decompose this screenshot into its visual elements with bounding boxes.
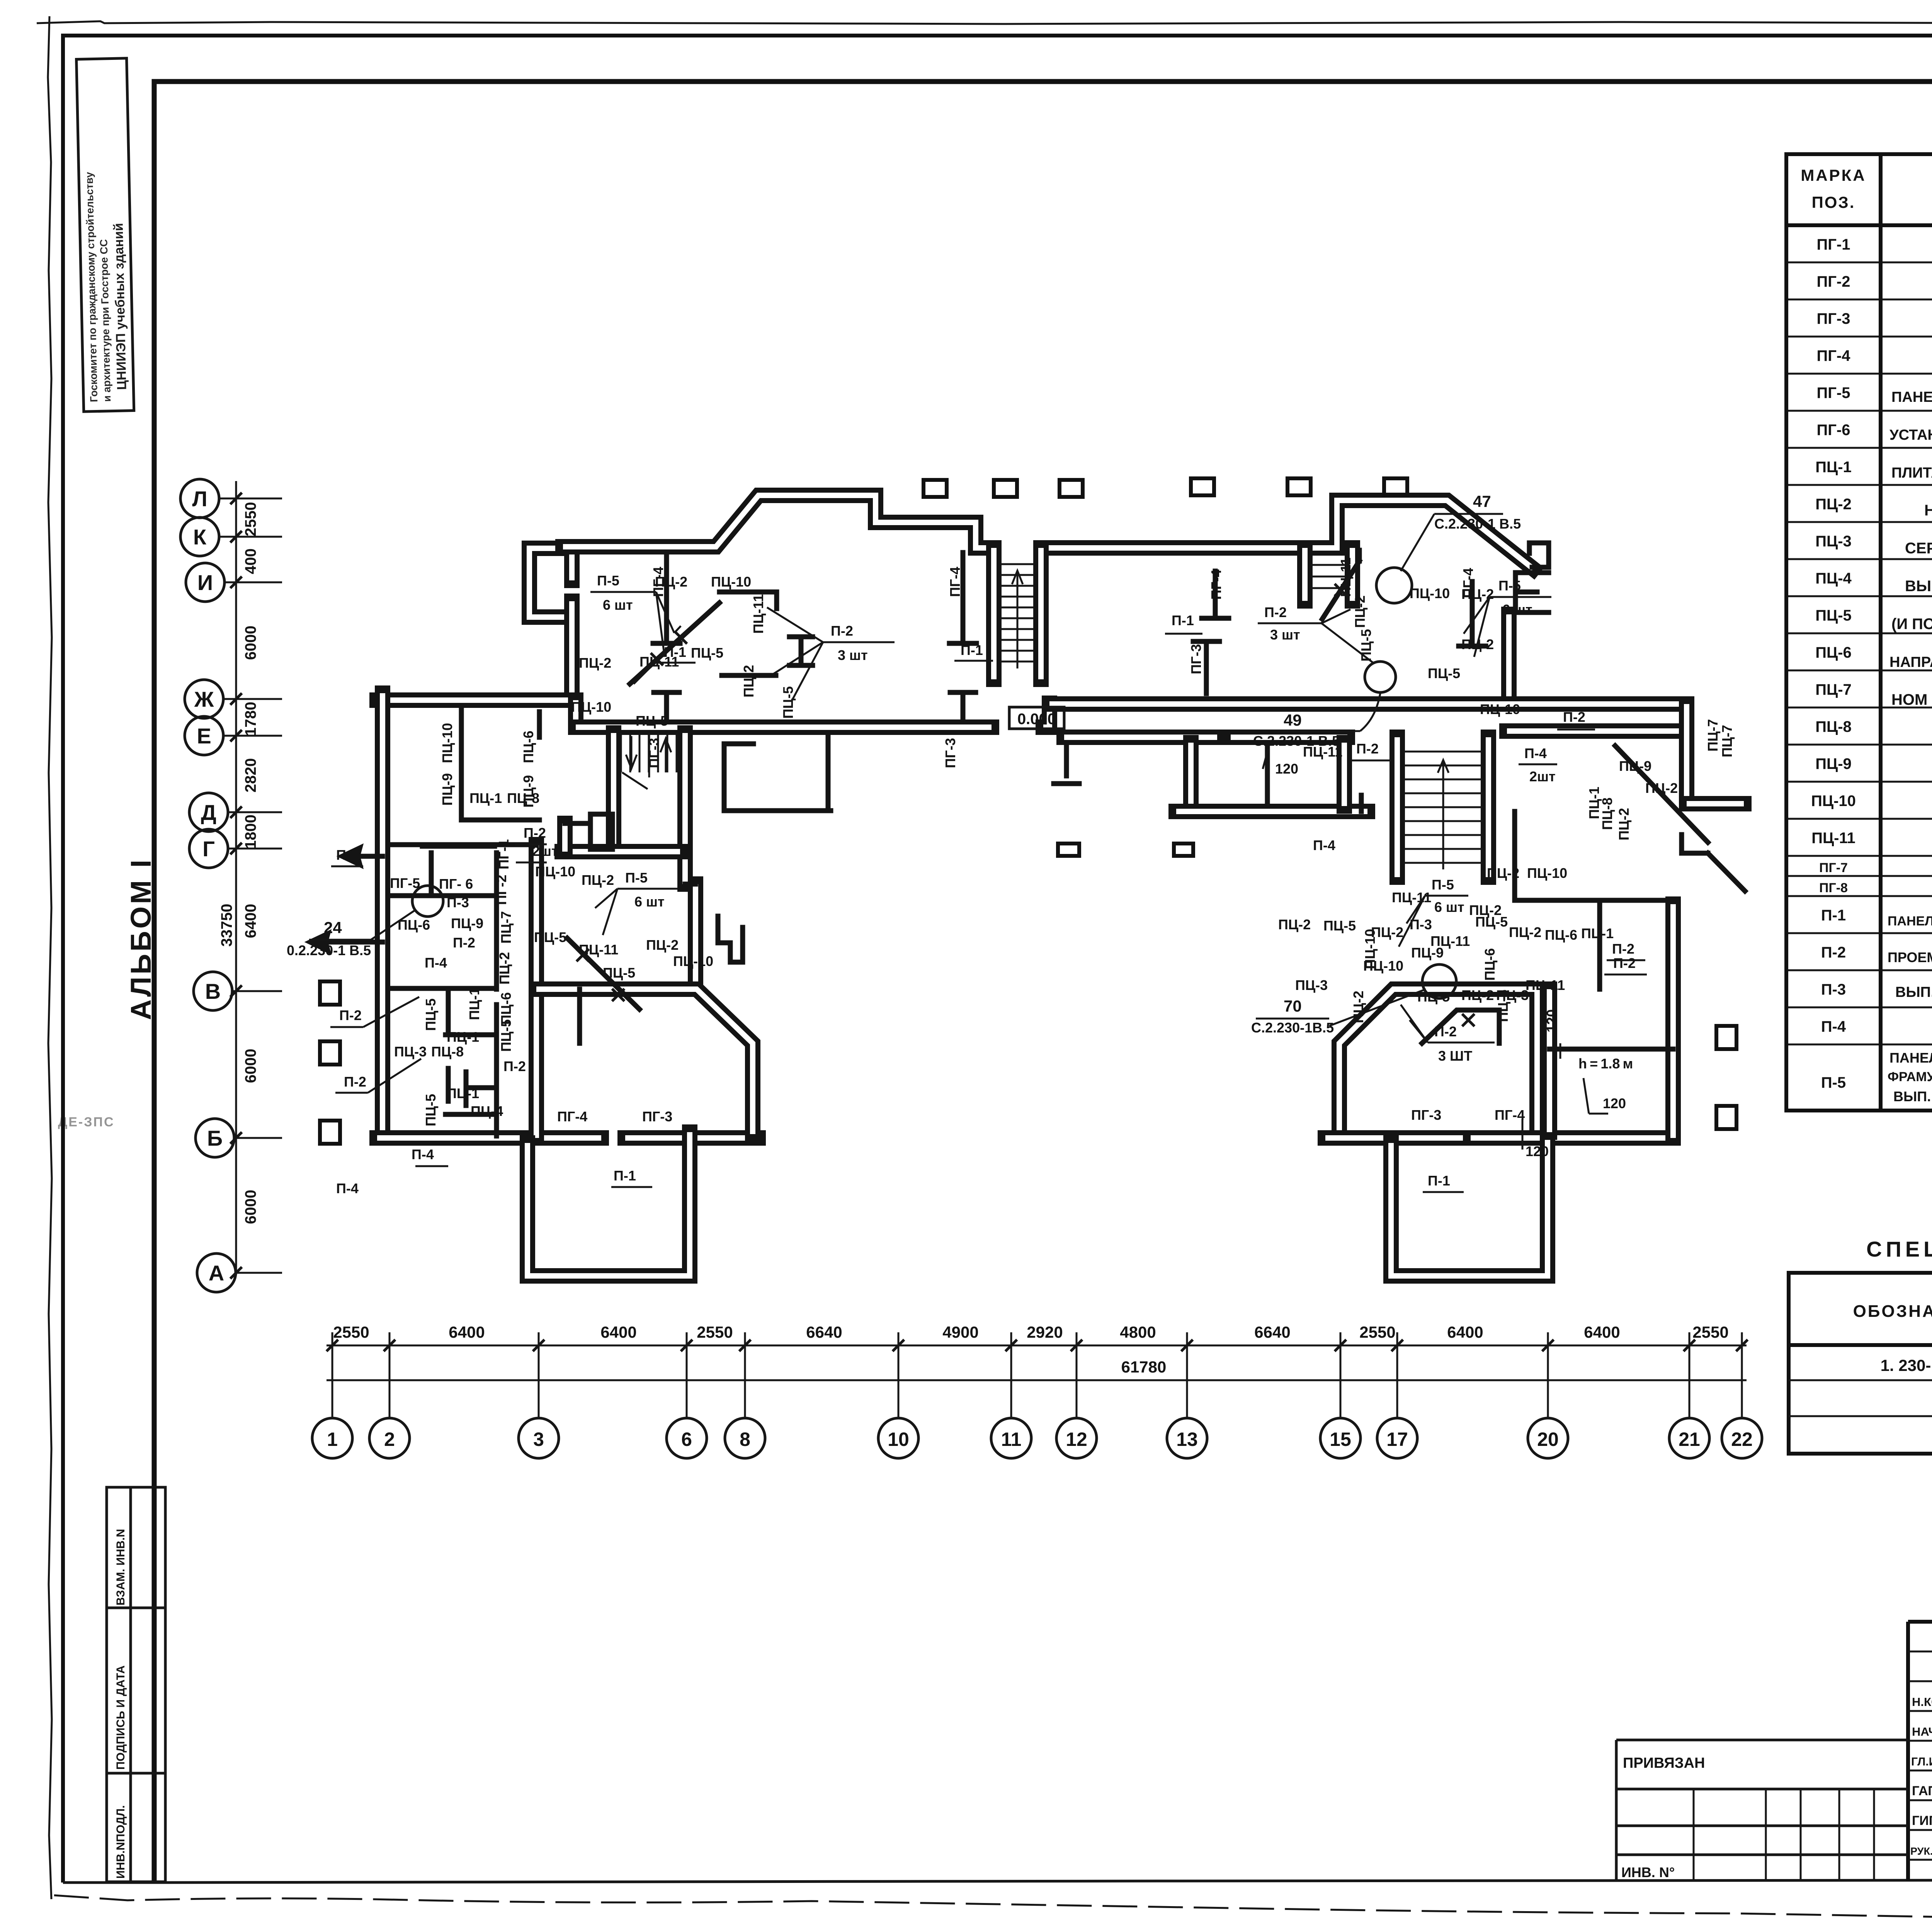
svg-text:Б: Б [207,1126,223,1150]
svg-text:СПЕЦИФИКАЦИЯ МОНТАЖНЫХ ЭЛЕМЕ: СПЕЦИФИКАЦИЯ МОНТАЖНЫХ ЭЛЕМЕНТОВ [1866,1237,1932,1261]
svg-text:ПГ-5: ПГ-5 [1817,384,1850,401]
axis circle Е [185,716,282,755]
svg-text:ПЦ-9: ПЦ-9 [451,915,483,931]
svg-text:РУК.ГР.АРХ: РУК.ГР.АРХ [1910,1845,1932,1857]
svg-text:Н.КОНТР.: Н.КОНТР. [1912,1695,1932,1709]
svg-text:ПЦ-2: ПЦ-2 [1352,595,1368,628]
paper edge left (wavy) [48,16,52,1899]
svg-text:ПЦ-5: ПЦ-5 [534,929,566,945]
SECTION:PLAN [287,478,1745,1276]
svg-text:8: 8 [740,1429,750,1450]
wall: vestibule right wall upper [571,554,572,580]
ramp symbol right [1682,835,1745,891]
stair left block [621,733,677,789]
svg-text:ПАНЕЛИ - ВСТАВКИ ПОД: ПАНЕЛИ - ВСТАВКИ ПОД [1889,1050,1932,1066]
svg-text:С.2.230-1В.5: С.2.230-1В.5 [1251,1020,1334,1036]
bottom-left stamp column [107,1487,165,1882]
wall: left stair wall left [613,733,614,852]
wall: right block bottom wall [1325,1138,1464,1138]
svg-text:ПАНЕЛИ-ВСТАВКИ НАД ДВЕРНЫМИ: ПАНЕЛИ-ВСТАВКИ НАД ДВЕРНЫМИ [1888,914,1932,929]
svg-text:ИНВ.NПОДЛ.: ИНВ.NПОДЛ. [114,1805,127,1879]
svg-text:ПЦ-5: ПЦ-5 [603,965,635,981]
wall: corridor main wall [576,727,992,728]
svg-text:ГАП: ГАП [1912,1784,1932,1798]
wall: left protrusion [527,1132,690,1276]
svg-text:20: 20 [1537,1429,1559,1450]
svg-text:1. 230-1 В. 5: 1. 230-1 В. 5 [1881,1356,1932,1374]
entrance stair center [1001,564,1034,668]
svg-text:(И ПОД РИГЕЛЯМИ, В: (И ПОД РИГЕЛЯМИ, В [1891,616,1932,633]
wall: corridor wall jog [575,700,576,727]
svg-text:ПЦ-1: ПЦ-1 [447,1085,479,1101]
svg-text:ПЦ-5: ПЦ-5 [1417,989,1450,1005]
svg-text:ПЦ-3: ПЦ-3 [394,1044,427,1060]
svg-text:22: 22 [1731,1429,1753,1450]
wall: left stair wall right [685,733,685,884]
axis circle Д [189,793,282,832]
svg-text:ПЦ-4: ПЦ-4 [1815,570,1852,587]
svg-text:6: 6 [681,1429,692,1450]
svg-text:Ж: Ж [194,687,214,711]
svg-text:120: 120 [1603,1095,1626,1111]
svg-text:ПГ-1: ПГ-1 [496,839,512,869]
svg-text:ПЦ-5: ПЦ-5 [1815,607,1852,624]
svg-text:ПЦ-5: ПЦ-5 [691,645,723,661]
wall: right block bottom wall b [1471,1138,1673,1138]
svg-text:6000: 6000 [242,1190,259,1224]
svg-text:П-2: П-2 [339,1007,362,1023]
svg-text:70: 70 [1284,997,1302,1015]
svg-text:6400: 6400 [1584,1323,1620,1341]
svg-text:ПЦ-3: ПЦ-3 [1295,977,1328,993]
svg-text:П-5: П-5 [1432,877,1454,893]
svg-text:П-3: П-3 [447,895,469,910]
wall: right corridor end stub [1687,803,1744,804]
svg-text:ПГ-3: ПГ-3 [1817,310,1850,327]
svg-text:6 шт: 6 шт [634,894,665,910]
svg-text:ПЦ-10: ПЦ-10 [711,574,751,590]
svg-text:ПЦ-6: ПЦ-6 [398,917,430,933]
wall: left stair bottom wall [562,851,680,852]
svg-text:П-2: П-2 [1356,741,1379,757]
svg-text:ПЦ-2: ПЦ-2 [582,872,614,888]
wall: vestibule left top bottom [529,548,568,617]
svg-text:ПЦ-2: ПЦ-2 [1371,924,1403,940]
joint ref 70 [1251,964,1456,1036]
label underlines and leader lines [330,563,1647,1192]
svg-text:ПЦ-2: ПЦ-2 [1815,496,1852,513]
section arrow axis Г [340,846,361,866]
svg-text:ПЦ-10: ПЦ-10 [1363,958,1403,974]
svg-text:НАЧ.АМ-1: НАЧ.АМ-1 [1912,1725,1932,1738]
svg-text:ГЛ.ИНЖ.М: ГЛ.ИНЖ.М [1911,1755,1932,1768]
svg-text:А: А [209,1261,224,1285]
svg-text:П-2: П-2 [453,935,475,951]
svg-text:П-5: П-5 [1821,1074,1846,1091]
svg-text:33750: 33750 [218,904,235,947]
svg-text:ПЦ-2: ПЦ-2 [1616,808,1632,840]
svg-text:12: 12 [1066,1429,1087,1450]
SECTION:TITLEBLOCK [1616,1622,1932,1912]
svg-text:ПГ-6: ПГ-6 [1817,422,1850,439]
joint ref 47 [1376,492,1521,603]
svg-text:ПЦ-1: ПЦ-1 [1581,925,1614,941]
svg-text:ПЦ-5: ПЦ-5 [1428,665,1460,681]
svg-text:24: 24 [324,918,342,937]
svg-text:120: 120 [1275,761,1298,777]
wall: left stair jog wall [565,823,565,852]
svg-text:ПЦ-7: ПЦ-7 [1719,725,1735,757]
svg-text:ПЦ-1: ПЦ-1 [469,790,502,806]
svg-text:ПГ-4: ПГ-4 [1208,570,1224,600]
svg-text:3: 3 [533,1429,544,1450]
axis circle 22 [1722,1332,1762,1458]
svg-text:ПЦ-7: ПЦ-7 [1705,719,1721,752]
title block outline [1908,1622,1932,1881]
montage spec table [1789,1273,1932,1454]
top-left stamp box [77,58,134,412]
entrance steps right [1311,565,1347,588]
svg-text:3 шт: 3 шт [838,647,868,663]
wall: top wall right of entrance [1047,500,1533,569]
axis circle 10 [878,1332,918,1458]
svg-text:П-2: П-2 [831,623,853,639]
svg-text:ПЦ-1: ПЦ-1 [1586,787,1602,819]
svg-text:ПГ-3: ПГ-3 [1411,1107,1441,1123]
svg-text:ПГ-4: ПГ-4 [1460,568,1476,598]
svg-text:4800: 4800 [1120,1323,1156,1341]
svg-text:П-1: П-1 [961,642,983,658]
axis circle Ж [185,680,282,718]
wall: right lower room left wall [1549,989,1550,1132]
wall: right protrusion [1391,1132,1548,1276]
svg-text:ПЦ-11: ПЦ-11 [1811,830,1855,847]
svg-text:2: 2 [384,1429,395,1450]
svg-text:h = 1.8 м: h = 1.8 м [1578,1056,1633,1071]
svg-text:6400: 6400 [242,904,259,938]
svg-text:Г: Г [202,837,215,861]
svg-text:17: 17 [1386,1429,1408,1450]
svg-text:ПЦ-10: ПЦ-10 [1410,585,1450,601]
svg-text:АЛЬБОМ I: АЛЬБОМ I [125,857,157,1020]
svg-text:ПЦ-9: ПЦ-9 [1619,758,1651,774]
left part of title block [1616,1740,1908,1881]
svg-text:2550: 2550 [697,1323,733,1341]
axis circle В [194,972,282,1010]
svg-text:15: 15 [1330,1429,1351,1450]
svg-text:ПЦ-2: ПЦ-2 [1487,865,1519,881]
svg-text:ПГ-3: ПГ-3 [942,738,958,768]
svg-text:6400: 6400 [449,1323,485,1341]
SECTION:LABELS [330,558,1735,1196]
svg-text:ПЦ-11: ПЦ-11 [1526,977,1565,993]
svg-text:ПЦ-3: ПЦ-3 [1496,987,1529,1003]
svg-text:ПЦ-1: ПЦ-1 [447,1029,479,1045]
svg-text:П-2: П-2 [336,847,359,863]
svg-text:1800: 1800 [242,815,259,849]
svg-text:ФРАМУГАМИ СЕРИЯ 1.231.9-7: ФРАМУГАМИ СЕРИЯ 1.231.9-7 [1888,1070,1932,1084]
svg-text:0.2.230-1 В.5: 0.2.230-1 В.5 [287,942,371,958]
wall: right corridor end wall [1686,704,1687,798]
svg-text:ПГ-3: ПГ-3 [646,738,662,768]
svg-text:ПЦ-11: ПЦ-11 [1430,933,1470,949]
svg-text:П-5: П-5 [1498,578,1521,594]
svg-text:ПЦ-1: ПЦ-1 [466,988,482,1020]
svg-text:ПЦ-2: ПЦ-2 [579,655,611,671]
svg-text:13: 13 [1176,1429,1198,1450]
axis circle К [180,517,282,556]
svg-text:2шт: 2шт [532,843,558,859]
svg-text:2820: 2820 [242,758,259,793]
svg-text:П-4: П-4 [412,1146,434,1162]
svg-text:ВЫП. 1. Ч.1 и 2: ВЫП. 1. Ч.1 и 2 [1895,984,1932,1000]
svg-text:49: 49 [1284,711,1302,729]
svg-text:400: 400 [242,548,259,574]
wall: left wing outer wall [382,693,383,1138]
svg-text:ПЦ-2: ПЦ-2 [1509,924,1541,940]
elevation mark 0.000 [1009,707,1064,729]
svg-text:ПЦ-7: ПЦ-7 [498,911,514,944]
axis circle 8 [725,1332,765,1458]
wall: right mid-block left wall [1339,989,1537,1138]
svg-text:НАПРАВЛЕНИИ ПАРАЛЛЕЛЬ-: НАПРАВЛЕНИИ ПАРАЛЛЕЛЬ- [1889,654,1932,670]
svg-text:6 шт: 6 шт [1502,602,1532,617]
svg-text:ПЦ-11: ПЦ-11 [579,942,618,957]
axis circle Б [196,1119,282,1157]
svg-text:ПГ-1: ПГ-1 [1817,236,1850,253]
svg-text:П-4: П-4 [425,955,447,971]
svg-text:В: В [205,979,221,1003]
svg-text:ПЦ-3: ПЦ-3 [1815,533,1852,550]
svg-text:ПЦ-10: ПЦ-10 [535,864,575,879]
fastening marks [577,584,1475,1026]
axis circle 15 [1320,1332,1361,1458]
axis circle 6 [667,1332,707,1458]
wall: center block bottom wall [1176,811,1367,812]
svg-text:ПГ-3: ПГ-3 [1188,644,1204,674]
svg-text:ПЦ-6: ПЦ-6 [1815,644,1852,661]
svg-text:6 шт: 6 шт [1434,899,1464,915]
wall: right center stair wall right [1488,737,1489,877]
svg-text:120: 120 [1544,1009,1560,1032]
svg-text:НОМ РИГЕЛЯМ ): НОМ РИГЕЛЯМ ) [1891,691,1932,708]
svg-text:ПГ-4: ПГ-4 [1495,1107,1525,1123]
axis circle Г [189,829,282,868]
svg-text:21: 21 [1679,1429,1700,1450]
svg-text:Д: Д [201,800,216,825]
svg-text:ВЫП. 2 , ч. 1 и 2: ВЫП. 2 , ч. 1 и 2 [1905,578,1932,595]
svg-text:ПЦ-2: ПЦ-2 [1645,780,1678,796]
svg-text:ПОДПИСЬ И ДАТА: ПОДПИСЬ И ДАТА [114,1665,127,1770]
svg-text:ПЦ-6: ПЦ-6 [1482,948,1498,981]
svg-text:ИНВ. N°: ИНВ. N° [1621,1864,1675,1880]
svg-text:И: И [197,570,213,595]
svg-text:ПЦ-10: ПЦ-10 [439,723,455,763]
section arrow axis В [308,932,329,952]
svg-text:ДЕ-ЗПС: ДЕ-ЗПС [58,1115,115,1129]
svg-text:П-1: П-1 [664,644,686,660]
svg-text:П-2: П-2 [1264,604,1287,620]
svg-text:ВЫП. 2 Ч. 1 и 2: ВЫП. 2 Ч. 1 и 2 [1893,1088,1932,1104]
wall: entrance flank right [1041,548,1041,679]
svg-text:ПГ-4: ПГ-4 [557,1109,587,1124]
svg-text:ВЗАМ. ИНВ.N: ВЗАМ. ИНВ.N [114,1529,127,1605]
wall: right center stair wall left [1397,737,1398,877]
axis circle Л [180,479,282,518]
svg-text:ПЦ-5: ПЦ-5 [423,1094,439,1126]
partitions single stroke [388,543,1708,1136]
svg-text:ПЦ-10: ПЦ-10 [1527,865,1567,881]
svg-text:61780: 61780 [1121,1358,1167,1376]
svg-text:Л: Л [192,486,207,511]
svg-text:ПЦ-8: ПЦ-8 [507,790,539,806]
wall: entrance flank left [993,548,994,679]
svg-text:10: 10 [888,1429,909,1450]
svg-text:П-2: П-2 [1612,941,1634,957]
svg-text:ПЦ-7: ПЦ-7 [1815,681,1852,698]
svg-text:ПЦ-2: ПЦ-2 [646,937,679,953]
svg-text:ПЦ-1: ПЦ-1 [1815,459,1852,476]
wall: left wing inner right wall [536,845,537,1138]
wall: corridor wall left section [377,700,576,701]
svg-text:П-1: П-1 [1821,907,1846,924]
svg-text:2550: 2550 [1359,1323,1395,1341]
svg-text:6000: 6000 [242,626,259,660]
wall: left tall wall [695,884,696,989]
svg-text:ПЦ-6: ПЦ-6 [1545,927,1577,943]
svg-text:ПЦ-8: ПЦ-8 [431,1044,464,1060]
svg-text:ПЦ-8: ПЦ-8 [1815,718,1852,735]
svg-text:Е: Е [197,724,211,748]
ventilation blocks [320,478,1736,1144]
svg-text:П-1: П-1 [1428,1173,1450,1189]
svg-text:2шт: 2шт [1529,769,1556,784]
stair right center [1403,752,1483,869]
svg-text:ПРОЕМАМИ СЕРИЯ 1.231.9-7: ПРОЕМАМИ СЕРИЯ 1.231.9-7 [1888,949,1932,965]
svg-text:6 шт: 6 шт [603,597,633,613]
svg-text:ПЦ-9: ПЦ-9 [439,773,455,806]
svg-text:УСТАНАВЛИВАЕМЫЕ ПОД: УСТАНАВЛИВАЕМЫЕ ПОД [1889,427,1932,443]
svg-text:ПЦ-11: ПЦ-11 [750,594,766,634]
svg-text:ПЦ-5: ПЦ-5 [1323,918,1356,934]
svg-text:6000: 6000 [242,1049,259,1083]
svg-text:П-4: П-4 [1313,837,1335,853]
svg-text:ПЦ-10: ПЦ-10 [1811,793,1856,810]
svg-text:6640: 6640 [1254,1323,1290,1341]
svg-text:ПГ-2: ПГ-2 [493,875,509,905]
wall: corridor upper wall right [1049,704,1687,704]
svg-text:ПЦ-4: ПЦ-4 [471,1103,503,1119]
axis circle 2 [369,1332,410,1458]
joint ref 24 [287,886,443,958]
svg-text:П-3: П-3 [1821,981,1846,998]
axis circle 21 [1669,1332,1709,1458]
svg-text:ПЦ-5: ПЦ-5 [1475,914,1508,930]
spec table grid [1786,262,1932,1111]
svg-text:47: 47 [1473,492,1491,510]
svg-text:3 ШТ: 3 ШТ [1438,1048,1472,1064]
axis circle 17 [1377,1332,1417,1458]
svg-text:6400: 6400 [1447,1323,1483,1341]
svg-text:Н эт = 3,3 м.: Н эт = 3,3 м. [1924,502,1932,519]
svg-text:2550: 2550 [242,502,259,536]
signature table [1908,1622,1932,1881]
svg-text:ПЦ-2: ПЦ-2 [1278,917,1311,932]
axis circle 3 [519,1332,559,1458]
svg-text:ПЛИТАМИ ПЕРЕКРЫТИЙ: ПЛИТАМИ ПЕРЕКРЫТИЙ [1891,464,1932,481]
wall: corridor lower wall right section [1507,731,1687,731]
svg-text:ПЦ-6: ПЦ-6 [520,731,536,763]
svg-text:ПЦ-10: ПЦ-10 [673,953,713,969]
svg-text:ПГ-4: ПГ-4 [1817,347,1851,364]
svg-text:ПГ-7: ПГ-7 [1819,861,1848,875]
wall: left block bottom wall right part [625,1138,758,1138]
svg-text:ПГ-8: ПГ-8 [1819,881,1848,895]
SECTION:TABLE2 [1789,1237,1932,1454]
svg-text:2920: 2920 [1027,1323,1063,1341]
svg-text:3 шт: 3 шт [1270,627,1300,643]
axis circle А [197,1253,282,1292]
wall: right entrance flank left [1304,548,1305,601]
svg-text:ПОЗ.: ПОЗ. [1812,193,1855,211]
svg-text:ПЦ-11: ПЦ-11 [1303,744,1342,760]
svg-text:П-1: П-1 [1172,612,1194,628]
svg-text:ПЦ-11: ПЦ-11 [1392,889,1431,905]
svg-text:6640: 6640 [806,1323,842,1341]
svg-text:СЕРИЯ 1.231. 9 - 7: СЕРИЯ 1.231. 9 - 7 [1905,540,1932,557]
svg-text:П-4: П-4 [1524,745,1547,761]
frame bottom [63,1879,1932,1883]
svg-text:ПЦ-2: ПЦ-2 [1461,987,1494,1003]
svg-text:П-2: П-2 [1563,709,1585,725]
axis circle 12 [1056,1332,1097,1458]
svg-text:ОБОЗНАЧЕНИЕ: ОБОЗНАЧЕНИЕ [1853,1302,1932,1321]
SECTION:TABLE1 [1786,154,1932,1111]
svg-text:11: 11 [1001,1429,1022,1450]
joint ref 49 [1253,662,1396,749]
svg-text:6400: 6400 [600,1323,636,1341]
wall: vestibule right wall lower [571,601,572,700]
svg-text:4900: 4900 [942,1323,978,1341]
svg-text:П-5: П-5 [597,573,619,588]
wall: left chamfered room top [536,989,753,1134]
svg-text:ГИП: ГИП [1912,1813,1932,1828]
bottom axis dimension lines [327,1345,1747,1380]
svg-text:П-4: П-4 [336,1180,359,1196]
axis circle 13 [1167,1332,1207,1458]
svg-text:ПЦ-5: ПЦ-5 [498,1019,514,1052]
wall: center block right wall [1344,743,1345,806]
svg-text:П-2: П-2 [524,825,546,841]
svg-text:К: К [193,525,207,549]
svg-text:ПГ-4: ПГ-4 [947,567,963,597]
hook symbol left [718,916,743,962]
svg-text:ПГ-5: ПГ-5 [390,875,420,891]
svg-text:2550: 2550 [1692,1323,1728,1341]
svg-text:2550: 2550 [333,1323,369,1341]
svg-text:120: 120 [1526,1143,1549,1159]
svg-text:П-1: П-1 [614,1168,636,1184]
axis circle 1 [312,1332,352,1458]
svg-text:ПЦ-5: ПЦ-5 [636,713,668,729]
svg-text:МАРКА: МАРКА [1801,166,1866,184]
svg-text:ПЦ-10: ПЦ-10 [571,699,611,715]
wall: center block left wall [1190,743,1191,806]
axis circle И [186,563,282,602]
svg-text:ПЦ-2: ПЦ-2 [741,665,757,697]
svg-text:ПЦ-2: ПЦ-2 [1350,991,1366,1023]
paper edge top [37,21,1932,24]
